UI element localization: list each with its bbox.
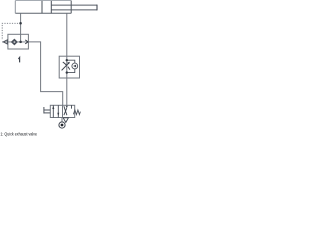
svg-text:1: Quick exhaust valve: 1: Quick exhaust valve xyxy=(0,131,37,136)
